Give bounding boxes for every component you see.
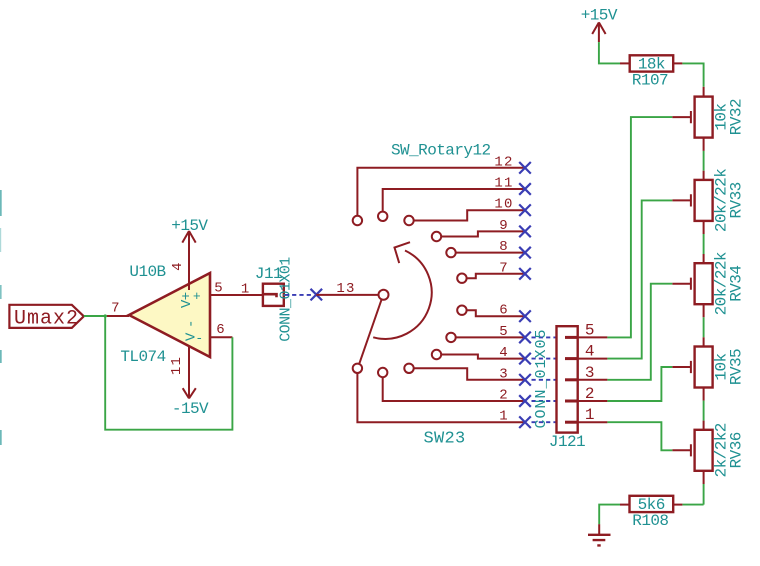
svg-text:RV34: RV34: [728, 266, 746, 302]
no-connect X pin 2: [519, 395, 531, 407]
J121 socket bar pin 1: [565, 421, 577, 424]
svg-text:-: -: [195, 331, 202, 346]
wire pin 12: [357, 168, 525, 216]
J121 socket bar pin 3: [565, 378, 577, 381]
left edge text fragment D: [0, 430, 2, 445]
no-connect X pin 10: [519, 204, 531, 216]
J121 pin 4 stub: [578, 358, 608, 360]
wire RV34 to RV35: [703, 317, 705, 337]
contact circle pin 12: [353, 216, 362, 225]
svg-text:10: 10: [494, 197, 513, 213]
wire R108 to ground: [599, 505, 620, 525]
trimpot RV32 bottom pin: [703, 138, 705, 151]
svg-text:4: 4: [499, 345, 509, 361]
svg-text:1: 1: [241, 282, 251, 298]
no-connect X pin 6: [519, 310, 531, 322]
svg-text:1: 1: [499, 409, 509, 425]
dashed line pin 3 to J121: [532, 379, 557, 381]
svg-text:RV36: RV36: [728, 432, 746, 468]
wire pin 8: [456, 252, 525, 254]
+15V power symbol top right: [592, 22, 605, 42]
contact circle pin 7: [457, 274, 466, 283]
left edge text fragment B: [0, 228, 1, 252]
trimpot RV32 wiper: [672, 111, 691, 123]
wire pin 11: [383, 189, 525, 212]
resistor R107 left pin: [620, 62, 630, 64]
trimpot RV33 bottom pin: [703, 221, 705, 234]
dashed line pin 1 to J121: [532, 421, 557, 423]
wire RV32 to RV33: [703, 151, 705, 171]
J121 pin 1 stub: [578, 421, 608, 423]
trimpot RV33 body: [695, 180, 713, 221]
op-amp pin 4: [188, 254, 190, 290]
wire Umax2 to pin 7: [84, 315, 107, 317]
rotary wiper arm: [359, 299, 381, 364]
op-amp pin 5 and wire to J11: [210, 294, 263, 296]
wire pin 9: [441, 231, 525, 236]
trimpot RV36 body: [695, 430, 713, 471]
ground symbol: [588, 535, 611, 546]
wire RV33 to RV34: [703, 234, 705, 254]
J121 socket bar pin 2: [565, 400, 577, 403]
svg-text:6: 6: [216, 322, 226, 338]
ground stem: [598, 524, 600, 534]
rotary rotation arc: [373, 251, 431, 339]
svg-text:TL074: TL074: [120, 348, 165, 366]
svg-text:2: 2: [499, 388, 509, 404]
wire J121 pin4 to RV33 wiper: [607, 200, 672, 358]
no-connect X pin 4: [519, 353, 531, 365]
svg-text:3: 3: [499, 366, 509, 382]
resistor R108 right pin: [673, 504, 682, 506]
op-amp pin 11: [188, 346, 190, 376]
svg-text:4: 4: [585, 343, 596, 361]
J121 socket bar pin 4: [565, 357, 577, 360]
svg-text:13: 13: [336, 281, 355, 297]
wire R107 to RV32: [682, 63, 703, 86]
global label Umax2: [9, 305, 83, 328]
trimpot RV35 top pin: [703, 337, 705, 346]
svg-text:U10B: U10B: [129, 263, 165, 281]
no-connect X pin 11: [519, 183, 531, 195]
svg-text:+15V: +15V: [581, 7, 618, 25]
left edge text fragment C: [0, 350, 2, 363]
wire RV36 to R108: [682, 484, 703, 505]
contact circle pin 10: [404, 216, 413, 225]
no-connect X pin 5: [519, 332, 531, 344]
op-amp U10B triangle body: [129, 273, 210, 357]
wire J121 pin3 to RV34 wiper: [607, 284, 672, 380]
svg-text:2: 2: [585, 385, 596, 403]
contact circle pin 6: [457, 306, 466, 315]
svg-text:SW23: SW23: [423, 430, 465, 449]
contact circle pin 1: [353, 364, 362, 373]
svg-text:CONN_01X05: CONN_01X05: [533, 328, 550, 428]
svg-text:+: +: [193, 289, 201, 304]
wire pin 10: [414, 210, 525, 220]
dashed line pin 2 to J121: [532, 400, 557, 402]
junction: [104, 314, 107, 317]
svg-text:SW_Rotary12: SW_Rotary12: [391, 142, 491, 160]
svg-text:3: 3: [585, 364, 596, 382]
svg-text:7: 7: [111, 301, 121, 317]
wire pin 4: [441, 355, 525, 359]
J121 pin 3 stub: [578, 379, 608, 381]
rotary arc arrowhead: [395, 242, 411, 263]
trimpot RV36 bottom pin: [703, 471, 705, 484]
rotary pin 13 wire: [316, 294, 378, 296]
J11 internal pin bar: [264, 294, 277, 297]
no-connect X pin 12: [519, 162, 531, 174]
svg-text:R108: R108: [632, 512, 668, 530]
wire RV35 to RV36: [703, 401, 705, 421]
J121 socket bar pin 5: [565, 336, 577, 339]
wire J121 pin5 to RV32 wiper: [607, 117, 672, 337]
svg-text:12: 12: [494, 154, 513, 170]
trimpot RV32 top pin: [703, 87, 705, 97]
svg-text:-15V: -15V: [172, 400, 209, 418]
dashed line pin 4 to J121: [532, 358, 557, 360]
resistor R107 right pin: [673, 62, 682, 64]
+15V power symbol at op-amp: [182, 231, 195, 256]
trimpot RV34 wiper: [672, 278, 691, 290]
rotary common contact: [379, 290, 389, 300]
svg-text:11: 11: [169, 356, 185, 375]
contact circle pin 9: [432, 232, 441, 241]
svg-text:11: 11: [494, 176, 513, 192]
contact circle pin 4: [432, 350, 441, 359]
svg-text:8: 8: [499, 239, 509, 255]
trimpot RV36 wiper: [672, 444, 691, 456]
svg-text:CONN_01X01: CONN_01X01: [278, 257, 295, 342]
trimpot RV36 top pin: [703, 421, 705, 430]
svg-text:7: 7: [499, 260, 509, 276]
svg-text:RV32: RV32: [728, 99, 746, 135]
wire pin 6: [467, 310, 525, 316]
svg-text:+15V: +15V: [171, 217, 208, 235]
wire pin 7: [467, 274, 525, 278]
wire pin 5: [456, 336, 525, 338]
trimpot RV34 bottom pin: [703, 304, 705, 317]
trimpot RV32 body: [695, 97, 713, 138]
op-amp pin 7 output: [107, 315, 129, 317]
wire J121 pin2 to RV35 wiper: [607, 367, 672, 401]
wire pin 1: [357, 373, 525, 422]
J121 pin 5 stub: [578, 336, 608, 338]
contact circle pin 5: [446, 333, 455, 342]
svg-text:Umax2: Umax2: [14, 308, 79, 331]
no-connect X pin 9: [519, 226, 531, 238]
trimpot RV35 wiper: [672, 361, 691, 373]
svg-text:R107: R107: [632, 72, 668, 90]
svg-text:1: 1: [585, 406, 596, 424]
no-connect X pin 7: [519, 268, 531, 280]
trimpot RV35 bottom pin: [703, 388, 705, 401]
contact circle pin 11: [378, 212, 387, 221]
resistor R108 body: [630, 496, 674, 512]
trimpot RV33 wiper: [672, 194, 691, 206]
svg-text:-: -: [183, 320, 199, 328]
left edge text fragment A: [0, 190, 2, 216]
wire feedback loop: [105, 316, 232, 430]
op-amp pin 6: [210, 336, 232, 338]
wire +15V to R107: [599, 42, 620, 63]
svg-text:6: 6: [499, 303, 509, 319]
contact circle pin 3: [404, 364, 413, 373]
dashed line pin 5 to J121: [532, 336, 557, 338]
no-connect X at J11: [311, 289, 323, 301]
wire pin 3: [414, 368, 525, 380]
no-connect X pin 3: [519, 374, 531, 386]
dashed line J11 to X: [285, 294, 311, 296]
left edge text fragment E: [0, 285, 2, 299]
svg-text:RV35: RV35: [728, 349, 746, 385]
contact circle pin 8: [446, 248, 455, 257]
connector J11 box: [263, 284, 284, 306]
resistor R107 body: [630, 55, 674, 71]
wire pin 2: [383, 377, 525, 401]
resistor R108 left pin: [620, 504, 630, 506]
svg-text:J121: J121: [549, 433, 585, 451]
contact circle pin 2: [378, 368, 387, 377]
no-connect X pin 8: [519, 247, 531, 259]
svg-text:5: 5: [214, 281, 224, 297]
svg-text:5: 5: [499, 324, 509, 340]
wire J121 pin1 to RV36 wiper: [607, 422, 672, 450]
trimpot RV35 body: [695, 347, 713, 388]
connector J121 box: [557, 326, 578, 432]
trimpot RV33 top pin: [703, 171, 705, 180]
trimpot RV34 top pin: [703, 254, 705, 263]
svg-text:4: 4: [170, 261, 186, 271]
svg-text:5: 5: [585, 321, 596, 339]
-15V power symbol at op-amp: [183, 374, 196, 398]
J121 pin 2 stub: [578, 400, 608, 402]
no-connect X pin 1: [519, 416, 531, 428]
svg-text:9: 9: [499, 218, 509, 234]
svg-text:RV33: RV33: [728, 182, 746, 218]
trimpot RV34 body: [695, 263, 713, 304]
